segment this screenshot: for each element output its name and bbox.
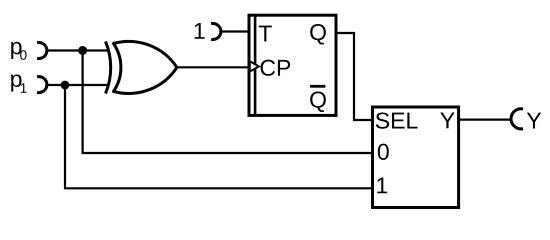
constant 1 connector — [211, 24, 221, 40]
pin label Y (mux output) — [440, 112, 454, 128]
wire p1 branch down and right to MUX input 1 — [65, 85, 372, 188]
wire constant 1 to flip-flop T input — [220, 30, 249, 32]
pin label CP — [261, 60, 291, 76]
wire p0 branch down and right to MUX input 0 — [83, 51, 372, 154]
XOR gate U1 body — [114, 41, 177, 93]
pin label Q — [310, 24, 326, 44]
input connector p0 — [37, 43, 47, 59]
constant 1 label — [195, 23, 205, 39]
pin label 0 — [378, 144, 389, 160]
multiplexer U3 box — [373, 107, 459, 208]
flip-flop U2 box — [249, 15, 336, 115]
wire flip-flop Q output to MUX SEL input — [336, 33, 372, 120]
input label p1 — [11, 74, 26, 92]
XOR gate U1 extra input arc — [106, 42, 111, 94]
input label p0 — [11, 42, 26, 60]
node junction dot on p0 wire — [78, 46, 87, 55]
wire XOR output to flip-flop CP input — [176, 66, 249, 68]
flip-flop U2 inner left edge line — [254, 14, 257, 116]
input connector p1 — [37, 77, 47, 93]
pin label Q-bar — [310, 86, 326, 112]
pin label T — [259, 26, 272, 42]
pin label SEL — [376, 112, 418, 128]
node junction dot on p1 wire — [61, 81, 70, 90]
output connector Y — [511, 109, 523, 129]
wire MUX Y output to output connector — [458, 118, 511, 120]
output label Y — [527, 113, 541, 129]
flip-flop clock edge triangle at CP — [250, 61, 259, 71]
pin label 1 — [377, 177, 387, 193]
wire p1 to XOR bottom input — [46, 84, 109, 86]
wire p0 to XOR top input — [46, 49, 109, 51]
